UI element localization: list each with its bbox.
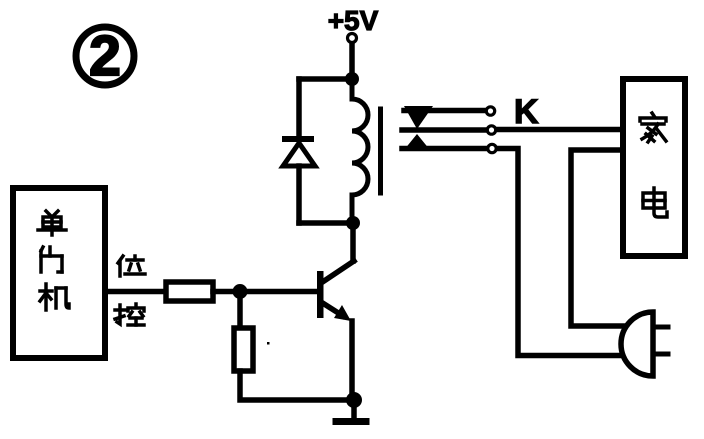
svg-text:K: K — [514, 93, 539, 131]
relay core bar — [378, 109, 383, 193]
+5V supply terminal — [348, 34, 357, 43]
wire: middle contact to appliance box — [495, 127, 623, 133]
node: emitter/ground junction — [346, 392, 362, 408]
wire: relay loop bottom — [299, 220, 353, 226]
wire: supply to relay top — [349, 44, 355, 79]
wire: emitter down — [349, 321, 355, 400]
label 控 — [115, 304, 144, 325]
transistor Q emitter stroke with arrow — [321, 302, 351, 321]
diode D triangle — [283, 143, 315, 166]
diode D (flyback), cathode bar — [285, 136, 311, 142]
label 位 — [118, 256, 145, 276]
wire: R2 to emitter node — [240, 371, 354, 400]
relay contact bottom line — [402, 146, 487, 152]
wire: diode branch lower — [296, 166, 302, 223]
figure number 2 (circled) — [76, 24, 134, 88]
label 机 — [40, 284, 69, 310]
contact terminal circle top — [486, 107, 494, 115]
wire: bottom contact down to plug — [496, 149, 630, 356]
svg-text:2: 2 — [89, 24, 121, 88]
label 家 — [640, 113, 666, 142]
wire: diode branch upper — [296, 79, 302, 137]
transistor Q base bar — [317, 271, 324, 318]
contact terminal circle bottom — [488, 144, 496, 152]
resistor R2 (pull-down) — [234, 328, 253, 371]
scan specks — [267, 342, 270, 345]
contact armature triangle (down) — [404, 106, 433, 129]
node: base junction — [233, 284, 248, 299]
transistor Q collector stroke — [321, 261, 354, 283]
contact terminal circle middle — [487, 126, 495, 134]
wire: appliance to plug (via left drop) — [571, 150, 632, 326]
wire: collector — [350, 223, 356, 261]
wire: relay loop top — [299, 76, 352, 82]
ground — [336, 400, 366, 422]
label 单 — [38, 211, 66, 235]
contact armature triangle (up) — [404, 134, 430, 150]
node: relay top junction — [345, 72, 359, 86]
relay contact top line — [404, 108, 486, 114]
label 电 — [643, 188, 667, 217]
appliance box 家电 — [623, 79, 685, 256]
relay coil K winding — [352, 79, 368, 223]
plug body — [621, 312, 653, 376]
MCU box 单片机 — [13, 188, 105, 358]
node: relay bottom junction — [346, 216, 360, 230]
relay contact middle line — [402, 127, 487, 133]
plug prong lower — [655, 352, 668, 357]
resistor R1 (base series) — [166, 282, 213, 301]
plug prong upper — [655, 325, 668, 330]
wire: junction to R2 — [237, 292, 243, 330]
wire: MCU output — [105, 289, 167, 295]
svg-text:+5V: +5V — [328, 5, 379, 36]
wire: R1 to base — [213, 289, 317, 295]
label 片 — [41, 247, 62, 272]
